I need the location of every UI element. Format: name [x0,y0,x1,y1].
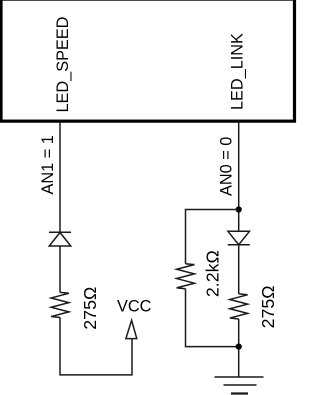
resistor R2 2.2kohm [177,264,195,289]
junction node A [236,206,242,212]
LED diode D1 [49,232,71,246]
wire resistor R2 to node B [186,289,239,347]
value label 2.2kohm for R2 [202,250,222,297]
net label AN1 = 1 [39,135,57,194]
VCC power symbol [126,320,137,338]
svg-text:2.2kΩ: 2.2kΩ [202,250,222,297]
pin label LED_SPEED [54,17,72,113]
svg-text:LED_SPEED: LED_SPEED [54,17,72,113]
wire pin LED_LINK to node A [238,122,240,231]
wire diode D1 to resistor R1 [59,246,61,292]
wire diode D2 to resistor R3 [238,245,240,294]
svg-text:AN1 = 1: AN1 = 1 [39,135,57,194]
LED diode D2 [228,231,250,244]
pin label LED_LINK [228,33,246,110]
wire node A to resistor R2 branch [186,210,239,264]
junction node B [236,344,242,350]
IC box U1 [1,0,295,121]
ground symbol [215,377,264,394]
svg-text:AN0 = 0: AN0 = 0 [217,137,235,196]
value label 275ohm for R1 [80,287,100,330]
wire pin LED_SPEED to diode D1 [59,122,61,232]
wire resistor R3 to ground [238,319,240,377]
svg-text:275Ω: 275Ω [80,287,100,330]
svg-text:VCC: VCC [117,298,152,316]
svg-text:LED_LINK: LED_LINK [228,33,246,110]
wire resistor R1 to VCC corner [60,318,132,375]
resistor R1 275ohm [51,292,69,317]
net label AN0 = 0 [217,137,235,196]
value label 275ohm for R3 [258,285,278,328]
VCC label [117,298,152,316]
svg-text:275Ω: 275Ω [258,285,278,328]
resistor R3 275ohm [230,294,248,319]
